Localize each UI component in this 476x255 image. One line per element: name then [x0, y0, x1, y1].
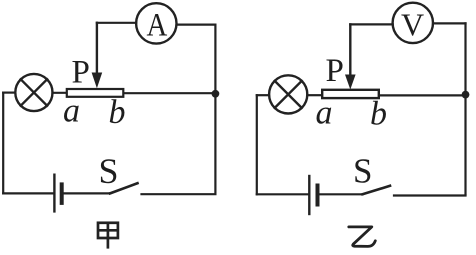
- wire: slider to voltmeter V1: [350, 23, 392, 25]
- wire: bottom left of circuit 乙: [257, 193, 308, 195]
- svg-text:S: S: [353, 152, 372, 191]
- rheostat P1 body: [67, 89, 124, 97]
- label 甲 (drawn glyph): [98, 222, 118, 249]
- rheostat P1 slider arrow: [92, 23, 103, 88]
- wire: rheostat P2 to right rail: [379, 94, 465, 96]
- lamp L2 (circle with X): [269, 75, 307, 113]
- battery B1: [54, 175, 61, 212]
- switch S1 blade: [110, 183, 138, 193]
- wire: left rail of circuit 乙: [256, 95, 258, 194]
- svg-text:V: V: [401, 6, 424, 42]
- svg-text:P: P: [72, 55, 90, 91]
- battery B2: [309, 176, 317, 214]
- switch S2 blade: [363, 186, 391, 195]
- wire: lamp L1 to rheostat P1: [53, 92, 67, 94]
- wire: lamp L1 left stub: [3, 91, 15, 93]
- wire: rheostat P1 to right rail: [125, 92, 216, 94]
- rheostat P2 slider arrow: [345, 24, 356, 89]
- wire: voltmeter V1 to right rail: [433, 22, 466, 24]
- wire: lamp L2 to rheostat P2: [307, 94, 321, 96]
- svg-text:b: b: [109, 94, 126, 131]
- svg-text:S: S: [99, 151, 119, 191]
- lamp L1 (circle with X): [15, 74, 52, 111]
- rheostat P2 body: [322, 90, 379, 98]
- svg-text:a: a: [63, 92, 80, 129]
- wire: slider to ammeter A1: [97, 22, 136, 24]
- wire: right rail of circuit 甲: [214, 25, 216, 194]
- wire: right rail of circuit 乙: [464, 23, 466, 194]
- wire: battery B1 to switch S1: [64, 192, 110, 194]
- voltmeter V1 circle: [393, 3, 433, 43]
- wire: battery B2 to switch S2: [320, 193, 363, 195]
- wire: ammeter A1 to right rail: [177, 24, 216, 26]
- svg-text:P: P: [326, 53, 344, 89]
- wire: switch S2 contact to right rail: [394, 194, 466, 196]
- label 乙 (drawn glyph): [349, 227, 376, 247]
- wire: lamp L2 left stub: [257, 94, 269, 96]
- svg-text:b: b: [370, 96, 387, 133]
- wire: left rail of circuit 甲: [2, 93, 4, 194]
- wire: bottom left of circuit 甲: [3, 192, 53, 194]
- svg-text:A: A: [147, 7, 168, 43]
- node: junction dot circuit 乙: [462, 91, 470, 99]
- ammeter A1 circle: [136, 3, 176, 43]
- svg-text:a: a: [316, 95, 333, 132]
- node: junction dot circuit 甲: [212, 90, 220, 98]
- wire: switch S1 contact to right rail: [142, 193, 216, 195]
